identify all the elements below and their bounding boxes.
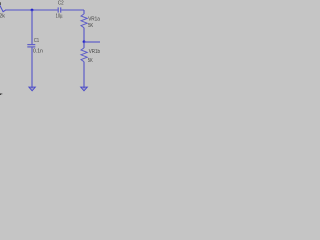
wire (down to VR1a) <box>83 10 85 14</box>
clipped text (bottom-left) <box>0 93 1 95</box>
svg-text:2k: 2k <box>0 13 5 19</box>
svg-text:C1: C1 <box>34 38 39 44</box>
capacitor C2 <box>57 7 59 12</box>
ground arrow (left) <box>29 87 35 91</box>
wire (C1 to ground arrow) <box>31 47 33 88</box>
clipped label character (top-left) <box>0 2 2 5</box>
wire (wiper tap to right edge) <box>84 41 100 43</box>
resistor VR1b <box>81 48 87 62</box>
node junction dot (32,10) <box>31 9 34 12</box>
resistor R1 (clipped at left edge) <box>0 5 6 12</box>
svg-text:10µ: 10µ <box>56 13 63 19</box>
wire (down from junction to C1) <box>31 10 33 44</box>
svg-text:5K: 5K <box>88 58 93 64</box>
svg-text:5K: 5K <box>88 23 93 29</box>
background <box>0 0 100 100</box>
svg-text:VR1a: VR1a <box>88 17 100 23</box>
svg-text:VR1b: VR1b <box>89 49 100 55</box>
wire (VR1b to ground arrow) <box>83 62 85 89</box>
wire (VR1a to junction) <box>83 28 85 42</box>
node junction dot (84,41.8) <box>83 40 86 43</box>
wire (top, right of C2) <box>61 9 84 11</box>
svg-text:C2: C2 <box>58 1 64 7</box>
resistor VR1a <box>81 14 87 28</box>
svg-text:0.1n: 0.1n <box>33 48 43 54</box>
ground arrow (right) <box>81 87 87 91</box>
wire (top, left of C2) <box>5 9 58 11</box>
capacitor C1 <box>27 44 35 46</box>
wire (junction to VR1b) <box>83 42 85 48</box>
